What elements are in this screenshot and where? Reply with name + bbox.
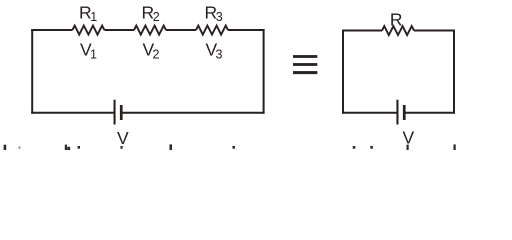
resistor R1 [72,26,104,35]
battery V (right circuit): short plate [403,105,406,120]
svg-text:V: V [403,127,415,147]
resistor R3 [196,26,228,35]
svg-text:2: 2 [153,10,160,24]
wire: right circuit left vertical [342,30,344,114]
wire: left circuit left vertical [31,29,33,114]
wire: R2 to R3 [166,29,196,31]
wire: right circuit bottom, left of battery [342,112,397,114]
svg-text:3: 3 [216,10,223,24]
wire: R to top-right corner [414,30,455,32]
wire: left circuit bottom, left of battery [31,112,113,114]
svg-text:2: 2 [153,47,160,61]
resistor R (equivalent) [382,26,414,35]
wire: right circuit top, corner to R [342,30,382,32]
wire: left circuit top, corner to R1 [31,29,72,31]
label V1 (voltage across R1) [80,40,97,62]
resistor R2 [134,26,166,35]
label R2 [142,3,160,25]
svg-text:1: 1 [90,10,97,24]
label V2 (voltage across R2) [143,40,160,62]
battery V (left circuit): long plate [114,100,116,125]
svg-text:3: 3 [216,47,223,61]
wire: right circuit bottom, right of battery [405,112,455,114]
svg-text:V: V [117,128,129,148]
wire: left circuit bottom, right of battery [122,112,264,114]
wire: left circuit right vertical [263,29,265,114]
label R1 [79,3,97,25]
battery V (left circuit): short plate [120,105,123,120]
equivalence symbol [293,55,317,74]
wire: R3 to top-right corner [228,29,265,31]
wire: right circuit right vertical [453,30,455,114]
label R3 [205,3,223,25]
svg-text:1: 1 [90,47,97,61]
label V3 (voltage across R3) [206,40,223,62]
caption text (cut off at bottom edge) [4,144,456,150]
battery V (right circuit): long plate [396,100,398,125]
wire: R1 to R2 [104,29,134,31]
svg-text:R: R [390,9,403,29]
